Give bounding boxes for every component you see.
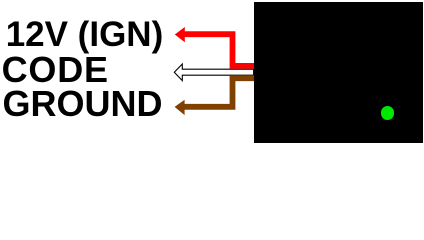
wire CODE (white arrow) bbox=[174, 64, 253, 81]
LED indicator (green) bbox=[381, 106, 394, 119]
label GROUND bbox=[3, 86, 163, 122]
wire 12V (red) bbox=[175, 27, 254, 66]
wire GROUND (brown) bbox=[175, 78, 254, 115]
module (black box) bbox=[254, 2, 423, 143]
label 12V (IGN) bbox=[6, 17, 164, 52]
label CODE bbox=[2, 52, 109, 88]
wires overlay bbox=[0, 0, 424, 146]
